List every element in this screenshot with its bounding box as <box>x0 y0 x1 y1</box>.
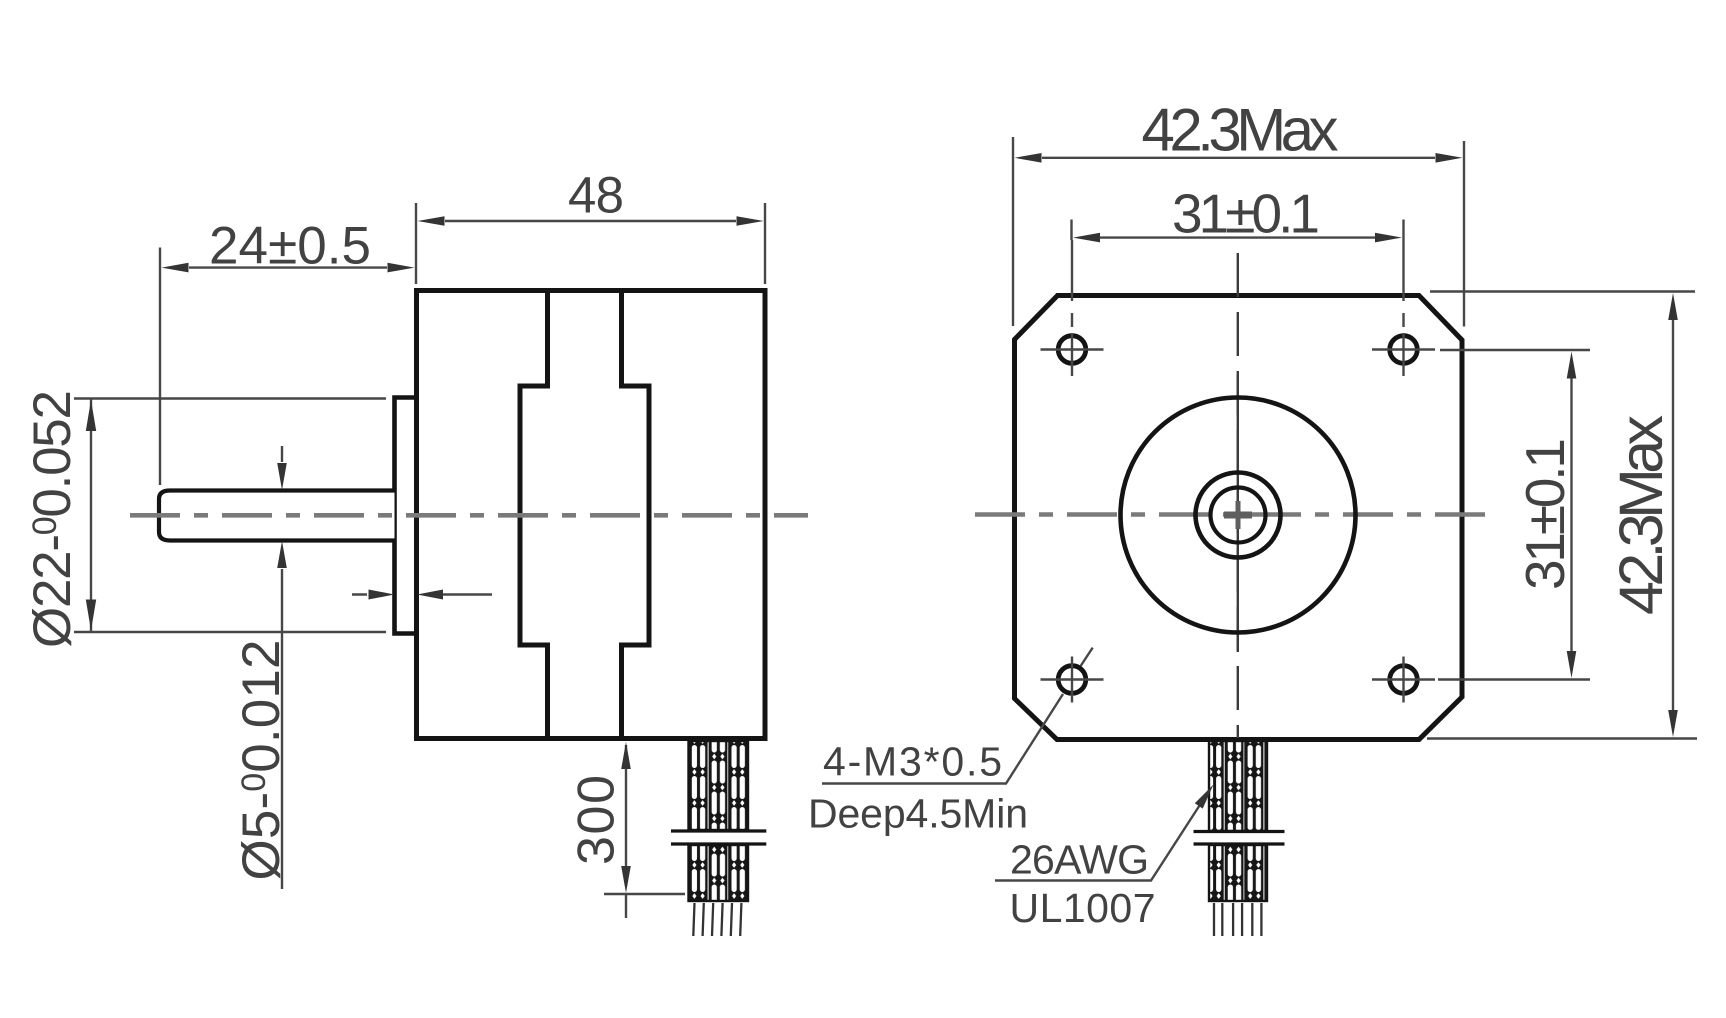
svg-text:300: 300 <box>568 775 626 865</box>
dimension 24±0.5 <box>159 248 161 486</box>
motor body outline (side view) <box>417 291 766 739</box>
dimension 42.3Max (width) <box>1013 137 1464 327</box>
centerline (side view) <box>130 513 808 518</box>
lead-wire cable (front view) <box>1209 741 1267 831</box>
svg-text:Deep4.5Min: Deep4.5Min <box>808 791 1028 837</box>
leader and label 26AWG UL1007 <box>995 797 1205 881</box>
front flange square outline <box>1015 296 1463 740</box>
mounting hole M3 top-left <box>1041 240 1104 376</box>
individual lead wires (side view) <box>693 903 694 936</box>
mounting hole M3 bottom-right <box>1372 657 1435 703</box>
boss thickness dimension <box>352 593 492 595</box>
vertical centerline (front view) <box>1237 253 1239 738</box>
cable tie collar (front view) <box>1194 832 1285 845</box>
svg-text:26AWG: 26AWG <box>1010 837 1149 883</box>
svg-text:24±0.5: 24±0.5 <box>209 216 371 275</box>
dimension 31±0.1 (hole spacing vertical) <box>1438 350 1590 680</box>
shaft boss circle <box>1196 473 1281 558</box>
individual lead wires (front view) <box>1213 903 1215 936</box>
stator stack step contour left <box>520 291 548 737</box>
center mark cross <box>1224 512 1252 519</box>
mounting hole M3 top-right <box>1372 240 1435 376</box>
svg-text:Ø5-00.012: Ø5-00.012 <box>232 640 291 881</box>
svg-text:UL1007: UL1007 <box>1010 885 1156 931</box>
dimension 300 (lead length) <box>625 745 627 918</box>
svg-text:31±0.1: 31±0.1 <box>1172 183 1320 245</box>
svg-text:48: 48 <box>568 167 624 224</box>
stator stack step contour right <box>622 291 650 737</box>
pilot boss circle <box>1121 398 1356 633</box>
front pilot boss (flange) <box>395 398 418 634</box>
dimension 31±0.1 (hole spacing horizontal) <box>1072 220 1404 241</box>
motor shaft <box>159 491 395 541</box>
svg-text:31±0.1: 31±0.1 <box>1514 438 1576 590</box>
lead-wire cable (side view) <box>689 741 749 830</box>
dimension Ø22-0/-0.052 <box>74 399 386 633</box>
leader and label 4-M3*0.5 Deep4.5Min <box>822 648 1093 784</box>
shaft circle <box>1211 488 1266 543</box>
svg-text:4-M3*0.5: 4-M3*0.5 <box>823 739 1002 785</box>
dimension Ø5-0/-0.012 <box>281 446 283 889</box>
svg-text:42.3Max: 42.3Max <box>1607 415 1675 615</box>
dimension 42.3Max (height) <box>1427 292 1697 739</box>
cable tie collar (side view) <box>671 831 766 844</box>
svg-text:42.3Max: 42.3Max <box>1142 97 1339 164</box>
horizontal centerline (front view) <box>975 512 1497 517</box>
mounting hole M3 bottom-left <box>1041 657 1104 703</box>
dimension 48 <box>416 203 765 284</box>
